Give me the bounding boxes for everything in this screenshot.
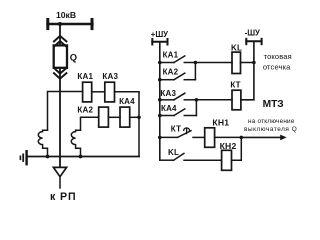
- wire KA4 to right return: [130, 116, 139, 118]
- junction dot KA1-KA2 output: [194, 61, 198, 65]
- relay coil KA4: [120, 107, 130, 127]
- svg-text:10кВ: 10кВ: [56, 10, 76, 20]
- wire right return vertical: [138, 92, 140, 157]
- junction dot CT1 earth: [46, 155, 50, 159]
- svg-text:выключателя Q: выключателя Q: [244, 126, 297, 133]
- wire KA3 to right return: [115, 91, 140, 93]
- junction dot bus KA4: [158, 114, 162, 118]
- wire breaker Q down to feeder: [59, 68, 61, 168]
- svg-text:Q: Q: [70, 52, 77, 63]
- svg-text:KL: KL: [168, 148, 179, 157]
- junction dot CT2 earth: [79, 155, 83, 159]
- busbar 10kV: [48, 20, 93, 29]
- wire minus bus: [241, 41, 254, 100]
- svg-text:-ШУ: -ШУ: [245, 28, 260, 37]
- contact KA4: [160, 109, 197, 116]
- svg-text:КТ: КТ: [230, 81, 240, 90]
- relay coil KA3: [105, 82, 115, 102]
- junction dot KA4 output: [137, 116, 141, 120]
- wire busbar to breaker Q: [59, 24, 61, 45]
- breaker Q lower chevrons: [54, 68, 66, 79]
- time-delay symbol on KT contact: [184, 128, 190, 134]
- terminal +SHU: [152, 39, 167, 45]
- contact KA2: [160, 73, 196, 80]
- junction dot KA3-KA4 output: [195, 98, 199, 102]
- wire KA2 to KA4: [108, 116, 120, 118]
- junction dot bus KT: [158, 136, 162, 140]
- junction dot KL minus bus: [252, 61, 256, 65]
- svg-text:КА1: КА1: [77, 72, 93, 81]
- current transformer CT2 secondary winding: [71, 130, 80, 156]
- svg-text:KL: KL: [231, 43, 242, 52]
- svg-text:КА4: КА4: [161, 104, 177, 113]
- wire plus bus: [159, 42, 161, 160]
- relay coil KA1: [83, 82, 92, 102]
- svg-text:КА4: КА4: [119, 97, 135, 106]
- wire KA4 riser to KA3 row: [195, 100, 197, 116]
- svg-text:+ШУ: +ШУ: [151, 30, 168, 39]
- svg-text:КН1: КН1: [212, 117, 229, 127]
- svg-text:КА2: КА2: [163, 68, 179, 77]
- contact KA1: [160, 56, 196, 63]
- relay KT coil: [232, 90, 241, 110]
- contact KA3: [160, 93, 197, 100]
- ground symbol: [20, 151, 26, 164]
- svg-text:МТЗ: МТЗ: [263, 99, 284, 110]
- relay KN2 coil: [222, 150, 232, 170]
- current transformer CT1 secondary winding: [38, 130, 47, 156]
- wire common earth return: [28, 156, 140, 158]
- svg-text:КА3: КА3: [160, 89, 176, 98]
- svg-text:токовая: токовая: [264, 52, 292, 61]
- wire KA3 output to relay KT: [196, 99, 232, 101]
- breaker Q body: [54, 45, 67, 67]
- wire CT1 secondary top / row1 left: [48, 92, 83, 131]
- svg-text:на отключение: на отключение: [248, 118, 295, 125]
- junction dot bus KA1: [158, 61, 162, 65]
- annotation tokovaya otsechka: [263, 52, 292, 72]
- svg-text:к РП: к РП: [50, 191, 77, 203]
- svg-text:КА2: КА2: [77, 106, 93, 115]
- contact KL: [160, 153, 222, 160]
- svg-text:отсечка: отсечка: [263, 63, 291, 72]
- junction dot trip node: [240, 136, 244, 140]
- relay coil KA2: [99, 107, 109, 127]
- wire KA1 to KA3: [92, 91, 105, 93]
- svg-text:КТ: КТ: [171, 125, 181, 134]
- svg-text:КА3: КА3: [102, 72, 118, 81]
- junction dot busbar tap: [58, 22, 62, 26]
- junction dot bus KA3: [158, 98, 162, 102]
- wire trip node riser to KN2: [232, 137, 242, 160]
- wire KN1 to trip node: [215, 136, 242, 138]
- wire KA1 output to relay KL: [195, 62, 232, 64]
- svg-text:КА1: КА1: [163, 51, 179, 60]
- wire CT2 secondary top / row2 left: [81, 117, 99, 130]
- wire relay KL to minus bus: [241, 62, 254, 64]
- wire KA2 riser to KA1 row: [194, 63, 196, 80]
- arrow to breaker trip: [241, 135, 286, 141]
- contact KT: [160, 131, 205, 138]
- terminal -SHU: [246, 39, 261, 44]
- relay KN1 coil: [205, 128, 215, 148]
- annotation na otklyuchenie vyklyuchatelya Q: [244, 118, 297, 133]
- relay KL coil: [232, 52, 241, 73]
- arrow to RP (feeder continues): [53, 167, 66, 188]
- breaker Q upper chevrons: [54, 36, 66, 47]
- junction dot bus KA2: [158, 78, 162, 82]
